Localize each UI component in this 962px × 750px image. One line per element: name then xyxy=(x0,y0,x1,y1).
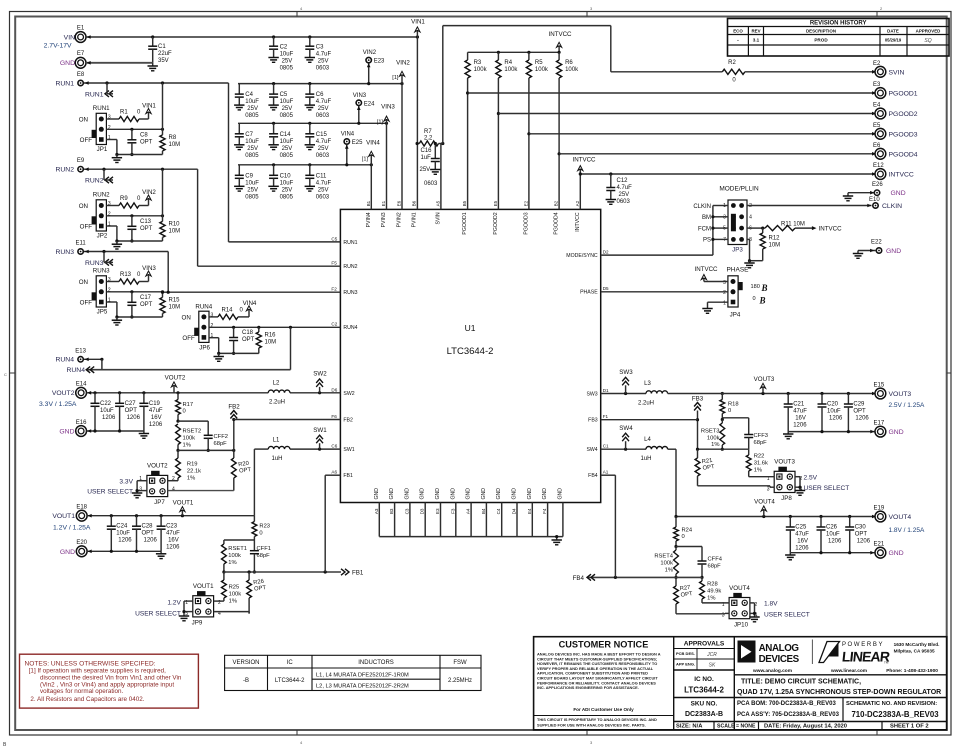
svg-text:10uF: 10uF xyxy=(280,99,294,105)
address and phone xyxy=(734,642,947,675)
svg-text:47uF: 47uF xyxy=(166,531,180,537)
svg-text:1%: 1% xyxy=(754,468,762,474)
svg-text:2. All Resistors and Capacito: 2. All Resistors and Capacitors are 0402… xyxy=(30,696,144,703)
svg-text:QUAD 17V, 1.25A SYNCHRONOUS ST: QUAD 17V, 1.25A SYNCHRONOUS STEP-DOWN RE… xyxy=(737,689,941,696)
resistor R18 0 xyxy=(720,394,739,422)
resistor R9 0 xyxy=(106,196,148,208)
U1 bottom GND pins and ground bus xyxy=(374,488,564,537)
wire R3-R6 top rail xyxy=(468,51,561,54)
svg-text:R11 10M: R11 10M xyxy=(781,221,805,227)
capacitor C30 xyxy=(845,517,871,553)
wire JP4 pin1 to ground xyxy=(708,302,728,308)
off-page RUN1 connector xyxy=(85,83,113,98)
node INTVCC stub right of R11 xyxy=(812,226,842,233)
resistor R20 OPT xyxy=(231,450,252,490)
svg-text:FB3: FB3 xyxy=(588,418,598,424)
svg-text:10uF: 10uF xyxy=(280,52,294,58)
ground at E26 xyxy=(843,193,853,201)
svg-text:25V: 25V xyxy=(282,59,293,65)
svg-text:1%: 1% xyxy=(711,442,719,448)
svg-text:RSET2: RSET2 xyxy=(183,429,202,435)
svg-text:GND: GND xyxy=(527,488,533,500)
capacitor C10 xyxy=(268,165,293,201)
svg-text:100k: 100k xyxy=(535,67,549,73)
svg-text:C17: C17 xyxy=(140,295,152,301)
svg-text:2.25MHz: 2.25MHz xyxy=(448,678,472,684)
svg-text:PVIN3: PVIN3 xyxy=(381,212,387,227)
svg-text:25V: 25V xyxy=(420,167,431,173)
wire JP3 pin8 to ground xyxy=(747,239,763,262)
svg-text:16V: 16V xyxy=(797,539,808,545)
ground below JP3 xyxy=(744,261,754,268)
svg-text:31.6k: 31.6k xyxy=(754,461,768,467)
svg-text:C1: C1 xyxy=(603,444,609,449)
svg-text:A3: A3 xyxy=(374,508,379,514)
svg-text:1.2V / 1.25A: 1.2V / 1.25A xyxy=(53,525,91,532)
svg-text:[1]: [1] xyxy=(377,120,384,126)
node VIN2 arrow and wire to PVIN2 xyxy=(392,60,410,210)
svg-text:RUN4: RUN4 xyxy=(55,357,74,364)
svg-text:R15: R15 xyxy=(169,297,181,303)
svg-text:C18: C18 xyxy=(242,330,254,336)
turret E20 GND xyxy=(60,540,88,557)
node VIN2 arrow at JP2 xyxy=(142,189,156,206)
svg-text:25V: 25V xyxy=(282,146,293,152)
svg-text:1.2V: 1.2V xyxy=(167,600,181,607)
svg-text:GND: GND xyxy=(404,488,410,500)
svg-text:PGOOD2: PGOOD2 xyxy=(889,111,918,118)
wire RUN4 pin2 rail to U1 xyxy=(209,326,340,329)
svg-text:OPT: OPT xyxy=(125,408,138,414)
resistor R23 0 xyxy=(252,516,270,540)
capacitor CFF2 68pF xyxy=(178,421,228,452)
resistor RSET1 100k xyxy=(222,540,247,574)
svg-text:VIN4: VIN4 xyxy=(366,140,380,147)
svg-text:F2: F2 xyxy=(331,287,337,292)
svg-text:R18: R18 xyxy=(728,402,739,408)
svg-text:OPT: OPT xyxy=(855,532,868,538)
svg-text:10M: 10M xyxy=(769,243,781,249)
svg-text:OFF: OFF xyxy=(80,224,93,231)
svg-text:3.3V / 1.25A: 3.3V / 1.25A xyxy=(39,401,77,408)
turret E25 VIN4 xyxy=(341,132,363,167)
node VOUT3 arrow xyxy=(754,376,775,394)
svg-text:A2: A2 xyxy=(575,200,580,206)
svg-text:CLKIN: CLKIN xyxy=(693,204,711,210)
svg-text:E10: E10 xyxy=(869,197,880,203)
svg-text:1%: 1% xyxy=(187,475,195,481)
wire VOUT4 gnd rail xyxy=(790,551,874,555)
capacitor C25 xyxy=(786,517,810,553)
svg-text:OPT: OPT xyxy=(853,409,866,415)
svg-text:DATE: Friday, August 14, 2020: DATE: Friday, August 14, 2020 xyxy=(764,724,847,730)
svg-text:C15: C15 xyxy=(316,132,328,138)
inductor L1 xyxy=(268,438,290,463)
U1 pin C5 RUN1 label xyxy=(331,236,357,246)
svg-text:E9: E9 xyxy=(77,158,85,164)
svg-text:C28: C28 xyxy=(142,524,154,530)
U1 pin D6 SW2 label xyxy=(331,387,354,397)
svg-text:VERSION: VERSION xyxy=(232,660,259,666)
svg-text:PGOOD4: PGOOD4 xyxy=(889,151,918,158)
svg-text:D2: D2 xyxy=(603,250,609,255)
svg-text:VIN4: VIN4 xyxy=(243,300,257,307)
resistor R19 22.1k xyxy=(176,450,202,481)
svg-text:E12: E12 xyxy=(873,163,884,169)
svg-text:1206: 1206 xyxy=(795,546,809,552)
turret E14 VOUT2 xyxy=(39,382,87,409)
svg-text:C23: C23 xyxy=(166,524,178,530)
svg-text:C1: C1 xyxy=(158,44,166,50)
svg-text:voltages for normal operation.: voltages for normal operation. xyxy=(40,688,124,695)
svg-text:E13: E13 xyxy=(75,348,86,354)
svg-text:RUN1: RUN1 xyxy=(55,80,74,87)
svg-text:INTVCC: INTVCC xyxy=(572,157,596,164)
svg-text:JP8: JP8 xyxy=(781,495,792,502)
svg-text:CFF1: CFF1 xyxy=(257,546,272,552)
jumper JP4 PHASE xyxy=(723,267,767,319)
svg-text:E22: E22 xyxy=(871,240,882,246)
svg-text:SIZE: N/A: SIZE: N/A xyxy=(676,724,703,730)
node VOUT4 arrow xyxy=(754,499,775,517)
svg-text:16V: 16V xyxy=(151,415,162,421)
capacitor C15 xyxy=(305,123,332,159)
svg-text:DATE: DATE xyxy=(887,29,899,34)
svg-text:PVIN2: PVIN2 xyxy=(397,212,403,227)
capacitor C12 xyxy=(606,174,632,205)
size date sheet row xyxy=(676,722,929,730)
wire CLKIN net JP3 to E10 xyxy=(747,204,872,208)
svg-text:RUN3: RUN3 xyxy=(85,260,104,267)
svg-text:1206: 1206 xyxy=(166,545,180,551)
svg-text:1206: 1206 xyxy=(144,538,158,544)
turret E12 INTVCC xyxy=(873,163,914,179)
capacitor CFF3 68pF xyxy=(722,418,768,449)
svg-text:C6: C6 xyxy=(316,92,324,98)
svg-text:B4: B4 xyxy=(481,508,486,514)
resistor RSET2 100k xyxy=(176,424,202,452)
svg-text:1uF: 1uF xyxy=(421,155,432,161)
svg-text:E18: E18 xyxy=(76,505,87,511)
wire FB2 rail xyxy=(178,449,235,452)
svg-text:E24: E24 xyxy=(364,101,375,107)
svg-text:U1: U1 xyxy=(465,323,476,333)
svg-text:R3: R3 xyxy=(474,60,482,66)
ground at C21 xyxy=(783,432,793,439)
svg-text:JP10: JP10 xyxy=(734,622,749,629)
svg-text:Phone: 1-408-432-1900: Phone: 1-408-432-1900 xyxy=(886,668,938,674)
svg-text:RUN3: RUN3 xyxy=(343,290,357,296)
svg-text:RUN2: RUN2 xyxy=(93,192,110,199)
svg-text:1206: 1206 xyxy=(857,539,871,545)
svg-text:0: 0 xyxy=(728,408,731,414)
node VIN3 arrow and wire to PVIN3 xyxy=(377,104,396,210)
svg-text:USER SELECT: USER SELECT xyxy=(87,489,133,496)
svg-text:10uF: 10uF xyxy=(100,408,114,414)
svg-text:R1: R1 xyxy=(120,110,128,116)
wire RUN4 net from E13 xyxy=(84,327,291,369)
wire JP7 pin2 to R19 xyxy=(168,480,178,482)
inductor L3 xyxy=(638,381,668,407)
capacitor C22 xyxy=(91,393,117,431)
svg-text:C2: C2 xyxy=(331,322,337,327)
wire RUN1 pin2 rail xyxy=(106,128,164,131)
capacitor C13 OPT xyxy=(127,216,152,243)
node FB3 chevron xyxy=(692,396,704,450)
svg-text:E15: E15 xyxy=(874,383,885,389)
off-page RUN4 connector xyxy=(66,367,94,375)
capacitor C2 xyxy=(268,37,293,72)
svg-text:DC2383A-B: DC2383A-B xyxy=(685,711,723,718)
svg-text:JP2: JP2 xyxy=(97,233,108,240)
svg-text:CFF3: CFF3 xyxy=(754,433,769,439)
svg-text:APP ENG.: APP ENG. xyxy=(676,662,695,667)
svg-text:10M: 10M xyxy=(265,340,277,346)
svg-text:INTVCC: INTVCC xyxy=(819,226,843,233)
capacitor C24 xyxy=(107,516,133,552)
svg-text:C7: C7 xyxy=(245,132,253,138)
svg-text:FB4: FB4 xyxy=(588,473,598,479)
svg-text:SW1: SW1 xyxy=(343,447,354,453)
svg-text:GND: GND xyxy=(59,429,74,436)
resistor R11 10M xyxy=(747,221,812,230)
svg-text:A6: A6 xyxy=(331,470,337,475)
svg-text:R17: R17 xyxy=(183,402,194,408)
svg-text:C24: C24 xyxy=(116,524,128,530)
svg-text:CUSTOMER NOTICE: CUSTOMER NOTICE xyxy=(559,640,649,650)
svg-text:E23: E23 xyxy=(374,59,385,65)
U1 pin C2 RUN4 label xyxy=(331,322,357,332)
wire VOUT2 rail to SW2 pin xyxy=(87,391,341,395)
ground below JP5 xyxy=(112,317,122,325)
svg-text:C29: C29 xyxy=(853,402,865,408)
svg-text:10M: 10M xyxy=(169,142,181,148)
svg-text:E3: E3 xyxy=(435,508,440,514)
svg-text:GND: GND xyxy=(542,488,548,500)
svg-text:22uF: 22uF xyxy=(158,51,172,57)
svg-text:DEVICES: DEVICES xyxy=(759,654,800,665)
svg-text:R10: R10 xyxy=(169,221,181,227)
jumper JP3 MODE/PLLIN xyxy=(693,186,759,254)
ground below JP4 xyxy=(702,309,712,314)
svg-text:R9: R9 xyxy=(120,196,128,202)
wire PVIN row at y=83.6 xyxy=(238,82,404,85)
svg-text:VOUT3: VOUT3 xyxy=(889,391,912,398)
node VIN4 arrow and wire to PVIN4 xyxy=(362,140,381,210)
svg-text:10uF: 10uF xyxy=(245,99,259,105)
jumper JP6 RUN4 xyxy=(182,304,214,352)
svg-text:P O W E R B Y: P O W E R B Y xyxy=(842,642,882,648)
svg-text:GND: GND xyxy=(512,488,518,500)
svg-text:BM: BM xyxy=(702,215,711,221)
turret E21 GND xyxy=(874,542,904,558)
svg-text:GND: GND xyxy=(889,429,904,436)
ground below JP7 xyxy=(132,493,142,498)
svg-text:GND: GND xyxy=(496,488,502,500)
approvals box xyxy=(674,637,735,730)
svg-text:[1]: [1] xyxy=(392,75,399,81)
svg-text:VOUT2: VOUT2 xyxy=(52,390,75,397)
svg-text:JP5: JP5 xyxy=(97,309,108,316)
capacitor C5 xyxy=(268,84,293,120)
svg-text:49.9k: 49.9k xyxy=(707,589,721,595)
svg-text:RSET3: RSET3 xyxy=(701,429,720,435)
turret E4 PGOOD2 xyxy=(873,103,918,119)
svg-text:RUN1: RUN1 xyxy=(343,240,357,246)
svg-text:0603: 0603 xyxy=(617,199,631,205)
svg-text:C: C xyxy=(4,372,7,377)
capacitor C6 xyxy=(305,84,332,120)
svg-text:100k: 100k xyxy=(474,67,488,73)
wire R22 to JP8 pin1 xyxy=(749,476,775,478)
svg-text:2.2uH: 2.2uH xyxy=(269,400,285,406)
title block frame xyxy=(534,637,947,730)
turret E26 GND xyxy=(848,182,906,197)
capacitor C23 xyxy=(157,516,181,552)
svg-text:CFF4: CFF4 xyxy=(708,556,723,562)
svg-text:E21: E21 xyxy=(874,542,885,548)
wire VOUT3 gnd rail xyxy=(788,430,874,434)
svg-text:GND: GND xyxy=(389,488,395,500)
wire PGOOD2 net xyxy=(498,112,876,116)
wire R21 to JP8 pin3 xyxy=(698,486,775,487)
svg-text:SKU NO.: SKU NO. xyxy=(691,701,718,708)
svg-text:E2: E2 xyxy=(523,200,528,206)
turret E24 VIN3 xyxy=(353,93,375,125)
svg-text:35V: 35V xyxy=(158,58,169,64)
svg-text:INTVCC: INTVCC xyxy=(548,31,572,38)
wire PGOOD3 net xyxy=(529,132,876,136)
ground below C16 xyxy=(430,170,440,175)
schematic number box xyxy=(846,701,939,719)
svg-text:3.1: 3.1 xyxy=(753,38,760,43)
svg-text:VOUT2: VOUT2 xyxy=(147,463,168,470)
svg-text:VIN3: VIN3 xyxy=(353,93,367,99)
svg-text:SW4: SW4 xyxy=(586,447,597,453)
svg-text:Milpitas, CA 95035: Milpitas, CA 95035 xyxy=(894,648,935,653)
U1 pin E6 PVIN2 label xyxy=(397,200,403,227)
resistor R16 10M xyxy=(256,327,276,353)
svg-text:PGOOD4: PGOOD4 xyxy=(554,212,560,234)
svg-text:USER SELECT: USER SELECT xyxy=(764,612,810,619)
svg-text:VIN1: VIN1 xyxy=(142,103,156,110)
ground below JP10 xyxy=(749,617,759,622)
svg-text:A4: A4 xyxy=(466,508,471,514)
turret E19 VOUT4 xyxy=(874,506,925,535)
svg-text:2.5V: 2.5V xyxy=(804,474,818,481)
capacitor C28 xyxy=(132,516,158,552)
wire JP9 pin1 pin3 to ground xyxy=(135,600,193,618)
svg-text:10uF: 10uF xyxy=(245,139,259,145)
svg-text:PVIN1: PVIN1 xyxy=(412,212,418,227)
U1 pin E1 PVIN3 label xyxy=(381,200,387,227)
U1 pin D1 SW3 label xyxy=(586,388,609,398)
SKU box xyxy=(674,701,947,722)
svg-text:F4: F4 xyxy=(542,508,547,514)
turret E15 VOUT3 xyxy=(874,383,925,410)
wire RUN1 net from E8 to U1 xyxy=(84,81,340,242)
svg-text:FB2: FB2 xyxy=(343,418,353,424)
svg-text:4.7uF: 4.7uF xyxy=(316,139,332,145)
svg-text:RSET4: RSET4 xyxy=(654,553,673,559)
svg-text:C8: C8 xyxy=(140,132,148,138)
svg-text:JP7: JP7 xyxy=(154,499,165,506)
svg-text:C9: C9 xyxy=(245,173,253,179)
wire VOUT4 rail xyxy=(674,515,876,519)
svg-text:4.7uF: 4.7uF xyxy=(316,99,332,105)
svg-text:L2: L2 xyxy=(273,381,280,387)
turret E16 GND xyxy=(59,420,87,436)
svg-text:ON: ON xyxy=(182,314,191,321)
resistor R27 OPT xyxy=(674,577,694,613)
svg-text:E20: E20 xyxy=(76,540,87,546)
svg-text:0: 0 xyxy=(259,531,262,537)
svg-text:68pF: 68pF xyxy=(708,563,722,569)
svg-text:C2: C2 xyxy=(280,45,288,51)
svg-text:GND: GND xyxy=(889,550,904,557)
svg-text:PGOOD3: PGOOD3 xyxy=(523,212,529,234)
svg-text:1%: 1% xyxy=(228,560,236,566)
svg-text:R7: R7 xyxy=(424,129,432,135)
svg-text:D1: D1 xyxy=(603,388,609,393)
svg-text:JP9: JP9 xyxy=(192,620,203,627)
jumper JP10 VOUT4 select xyxy=(722,585,758,629)
capacitor C19 xyxy=(139,393,163,431)
node SW2 chevron xyxy=(313,371,327,393)
wire PHASE net from U1 to JP4 pin2 xyxy=(601,291,728,293)
svg-text:L2, L3 MURATA DFE252012F-2R2M: L2, L3 MURATA DFE252012F-2R2M xyxy=(316,684,409,690)
svg-text:VOUT3: VOUT3 xyxy=(774,459,795,466)
svg-text:MODE/PLLIN: MODE/PLLIN xyxy=(719,186,759,193)
U1 pin F1 FB3 label xyxy=(588,414,608,424)
svg-text:4.7uF: 4.7uF xyxy=(316,180,332,186)
turret E5 PGOOD3 xyxy=(873,123,918,139)
svg-text:R24: R24 xyxy=(682,528,693,534)
svg-text:LTC3644-2: LTC3644-2 xyxy=(275,678,305,684)
node INTVCC arrow near IC xyxy=(572,157,596,175)
IC number box xyxy=(674,676,947,698)
off-page RUN3 connector xyxy=(85,252,113,267)
svg-text:E1: E1 xyxy=(381,200,386,206)
svg-text:10M: 10M xyxy=(169,304,181,310)
wire FB2 net to U1 xyxy=(234,419,341,421)
svg-text:R8: R8 xyxy=(169,135,177,141)
capacitor C26 xyxy=(817,517,843,553)
wire RUN3 pin2 rail xyxy=(106,290,164,293)
svg-text:APPROVED: APPROVED xyxy=(916,29,941,34)
svg-text:PCA BOM: 700-DC2383A-B_REV03: PCA BOM: 700-DC2383A-B_REV03 xyxy=(737,701,836,707)
svg-text:C5: C5 xyxy=(280,92,288,98)
svg-text:C11: C11 xyxy=(316,173,327,179)
svg-text:100k: 100k xyxy=(565,67,579,73)
svg-text:FB1: FB1 xyxy=(352,570,364,577)
resistor R26 OPT xyxy=(247,572,267,614)
svg-text:VIN2: VIN2 xyxy=(142,189,156,196)
svg-text:C10: C10 xyxy=(280,173,292,179)
resistor RSET3 100k xyxy=(701,420,725,451)
svg-text:1.8V / 1.25A: 1.8V / 1.25A xyxy=(889,527,925,534)
turret E18 VOUT1 xyxy=(52,505,91,532)
svg-text:E11: E11 xyxy=(75,241,86,247)
svg-text:VOUT1: VOUT1 xyxy=(193,583,214,590)
U1 pin A2 INTVCC label xyxy=(575,200,581,231)
svg-text:C5: C5 xyxy=(331,236,337,241)
svg-text:0: 0 xyxy=(753,296,756,302)
svg-text:IC: IC xyxy=(287,660,294,666)
wire GND net E7 to C1 xyxy=(86,61,153,65)
U1 pin E5 PGOOD2 label xyxy=(493,200,499,234)
svg-text:A1: A1 xyxy=(603,470,609,475)
